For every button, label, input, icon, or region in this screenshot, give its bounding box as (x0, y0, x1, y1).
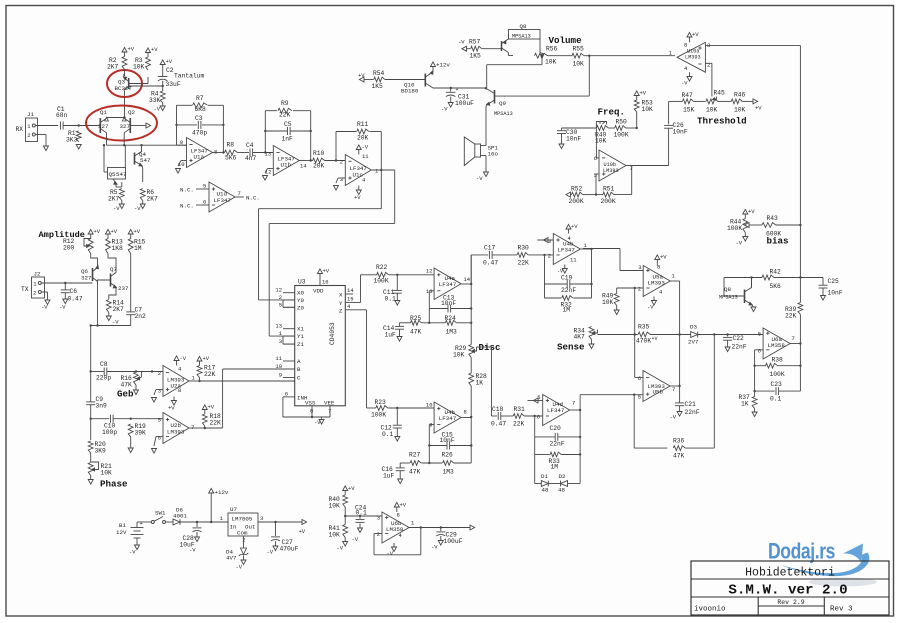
capacitor C22 (727, 335, 729, 337)
ground below R34 (591, 340, 593, 345)
title block frame (691, 561, 889, 615)
diode D3 (691, 332, 698, 338)
-V arrow above U2a (176, 361, 178, 366)
+V arrow above U5a (656, 260, 658, 266)
svg-text:5: 5 (158, 417, 161, 424)
svg-text:C2: C2 (166, 67, 174, 74)
wire Q4 emitter to R6 (142, 166, 143, 169)
resistor R31 (513, 414, 524, 419)
svg-text:22K: 22K (518, 260, 530, 267)
wire speaker to -V (481, 155, 487, 157)
wire R56 wiper to Q9 (541, 58, 543, 65)
op-amp U6b (382, 512, 409, 543)
svg-text:10K: 10K (101, 470, 113, 477)
transistor Q7 (110, 274, 112, 287)
svg-text:R9: R9 (281, 100, 289, 107)
svg-text:8: 8 (684, 42, 687, 49)
capacitor C7 (130, 254, 132, 312)
svg-text:+V: +V (128, 46, 135, 53)
svg-text:3K9: 3K9 (95, 448, 107, 455)
svg-text:2V7: 2V7 (688, 339, 699, 346)
svg-text:U1a: U1a (194, 154, 205, 161)
svg-text:1K: 1K (741, 401, 749, 408)
svg-text:Q8: Q8 (520, 23, 527, 30)
resistor R38 (755, 365, 766, 367)
-V arrow below R6 (142, 201, 144, 205)
svg-text:B: B (297, 366, 301, 373)
op-amp U1c (345, 155, 371, 186)
svg-text:C3: C3 (195, 115, 203, 122)
svg-text:6: 6 (203, 199, 206, 206)
svg-text:N.C.: N.C. (180, 187, 194, 194)
wire U10b pin6 (595, 128, 597, 158)
svg-text:Threshold: Threshold (697, 116, 747, 127)
U3 pin 9 C (283, 377, 295, 379)
svg-text:14: 14 (347, 287, 354, 294)
op-amp U10a comparator (677, 42, 705, 72)
resistor R46 (718, 100, 731, 102)
op-amp U4c (434, 402, 461, 433)
ground below J1 (44, 146, 49, 151)
svg-text:R22: R22 (376, 264, 388, 271)
svg-text:+V: +V (299, 528, 306, 535)
resistor R15 (128, 239, 133, 254)
svg-text:-V: -V (59, 304, 66, 311)
-V arrow below U5a (653, 297, 655, 301)
svg-text:2n2: 2n2 (135, 313, 147, 320)
potentiometer R21 (90, 453, 92, 462)
svg-text:10nF: 10nF (441, 300, 456, 307)
svg-text:C: C (297, 375, 301, 382)
svg-text:-V: -V (362, 144, 369, 151)
wire Z pin to R23 (366, 310, 368, 408)
transistor Q10 (424, 74, 426, 87)
wire U1a pin9 input (177, 144, 187, 146)
svg-text:8: 8 (310, 408, 313, 415)
-V below C31 (450, 97, 452, 103)
svg-text:R46: R46 (734, 92, 746, 99)
red annotation ellipse around Q1 Q2 (86, 106, 157, 141)
svg-text:10K: 10K (642, 106, 654, 113)
svg-text:16o: 16o (488, 151, 499, 158)
svg-text:7: 7 (792, 335, 795, 342)
svg-text:VSS: VSS (305, 400, 316, 407)
svg-text:547: 547 (140, 157, 151, 164)
op-amp U6a (763, 328, 790, 359)
wire Q1 collector down (106, 137, 108, 145)
svg-text:10nF: 10nF (566, 136, 581, 143)
wire R55 node to U10a and down to Q9 base (589, 55, 675, 57)
wire U4a output vertical bus (470, 255, 472, 345)
svg-text:327: 327 (81, 275, 92, 282)
svg-text:470uF: 470uF (280, 546, 299, 553)
svg-text:100p: 100p (102, 429, 117, 436)
+V arrow above R12 (90, 234, 92, 239)
resistor R14 (106, 300, 111, 313)
+V arrow above R53 (636, 96, 638, 101)
-V arrow below U3 (321, 417, 323, 420)
svg-text:-V: -V (314, 419, 321, 426)
resistor R39 (798, 303, 803, 315)
svg-text:14: 14 (300, 163, 307, 170)
svg-text:10: 10 (275, 363, 282, 370)
resistor R25 (400, 322, 411, 324)
svg-text:22K: 22K (513, 421, 525, 428)
resistor R9 feedback (264, 111, 266, 153)
wire U5b pin5 bus down to R36 (633, 395, 635, 448)
capacitor C31 (450, 88, 452, 92)
svg-text:6: 6 (638, 375, 641, 382)
svg-text:+V: +V (571, 223, 578, 230)
U3 pin 13 X1 (283, 328, 295, 330)
potentiometer R44 (743, 219, 748, 233)
svg-text:7: 7 (672, 386, 675, 393)
svg-text:0.1: 0.1 (770, 396, 782, 403)
svg-text:U1b: U1b (281, 162, 292, 169)
svg-text:100uF: 100uF (455, 100, 474, 107)
capacitor C1 (60, 122, 62, 130)
wire U4b output (580, 248, 591, 250)
svg-text:-V: -V (267, 549, 274, 556)
capacitor C6 (64, 283, 66, 290)
svg-text:-V: -V (129, 549, 136, 556)
svg-text:U7: U7 (230, 506, 237, 513)
op-amp U10b (599, 150, 626, 181)
svg-text:33K: 33K (149, 97, 161, 104)
-V arrow below U6b (393, 543, 395, 547)
svg-text:+V: +V (692, 31, 699, 38)
svg-text:10nF: 10nF (673, 129, 688, 136)
svg-text:Volume: Volume (549, 35, 583, 46)
wire U4c output (461, 417, 471, 419)
svg-text:-V: -V (236, 564, 243, 571)
svg-text:8: 8 (214, 149, 217, 156)
wire U6b output (409, 527, 470, 529)
+V arrow above U3 (319, 274, 321, 279)
svg-text:Z0: Z0 (297, 304, 304, 311)
op-amp U2a (163, 366, 189, 397)
capacitor C10 (91, 418, 110, 420)
svg-text:Y0: Y0 (297, 297, 304, 304)
+V output arrow (302, 520, 307, 525)
-V arrow below R14 (108, 313, 110, 317)
svg-text:X: X (339, 292, 343, 299)
wire R29 wiper to C18 (477, 346, 492, 348)
svg-text:0.1: 0.1 (385, 296, 397, 303)
svg-text:33uF: 33uF (166, 81, 181, 88)
svg-text:22K: 22K (210, 420, 222, 427)
resistor R26 (443, 461, 454, 466)
svg-text:Hobidetektori: Hobidetektori (745, 567, 835, 580)
diodes D1 D2 feedback (534, 455, 536, 484)
svg-text:LM393: LM393 (648, 280, 666, 287)
svg-text:6: 6 (537, 414, 540, 421)
ground below R37 (754, 409, 756, 413)
wire Y pin to R22 (360, 275, 362, 303)
transistor Q2 (129, 118, 131, 133)
svg-text:9: 9 (279, 372, 282, 379)
svg-text:3: 3 (158, 388, 161, 395)
ground below R1 (76, 145, 81, 150)
svg-text:R50: R50 (616, 119, 628, 126)
svg-text:Q7: Q7 (110, 266, 117, 273)
svg-text:3: 3 (260, 515, 263, 522)
capacitor C25 (800, 277, 823, 279)
resistor R43 (744, 223, 749, 228)
-V arrow below R44 (744, 233, 746, 237)
svg-text:4V7: 4V7 (226, 555, 237, 562)
-V arrow below U10a (689, 72, 691, 76)
capacitor C27 (258, 521, 302, 523)
svg-text:1nF: 1nF (282, 136, 294, 143)
svg-text:-V: -V (736, 240, 743, 247)
svg-text:R55: R55 (573, 46, 585, 53)
svg-text:+: + (140, 520, 143, 527)
potentiometer R34 Sense (589, 327, 594, 340)
svg-text:R7: R7 (196, 95, 204, 102)
svg-text:Y1: Y1 (297, 333, 304, 340)
resistor R40b (343, 495, 348, 507)
capacitor C5 feedback (265, 130, 287, 132)
op-amp U4b upper (553, 234, 580, 265)
svg-text:-V: -V (189, 547, 196, 554)
svg-text:C19: C19 (561, 275, 573, 282)
svg-text:3K3: 3K3 (66, 137, 78, 144)
ground below R16 (135, 385, 137, 390)
svg-text:1uF: 1uF (385, 332, 397, 339)
svg-text:Sense: Sense (557, 342, 585, 353)
svg-text:R47: R47 (682, 92, 694, 99)
-V arrow below U4b (564, 265, 566, 269)
svg-text:Rev 2.9: Rev 2.9 (777, 599, 804, 606)
op-amp U5a (643, 266, 670, 297)
resistor R4 (160, 91, 165, 103)
svg-text:1uF: 1uF (383, 473, 395, 480)
+V arrow above U4b (568, 229, 570, 234)
wire Q5 emitter to R5 (116, 186, 122, 188)
svg-text:10K: 10K (602, 299, 614, 306)
potentiometer R12 (88, 239, 93, 254)
transistor Q6 (92, 268, 94, 281)
svg-text:C6: C6 (70, 288, 78, 295)
svg-text:12: 12 (275, 287, 282, 294)
+V arrow above U6b (396, 507, 398, 512)
svg-text:SW1: SW1 (155, 510, 166, 517)
svg-text:100K: 100K (371, 412, 386, 419)
capacitor C12 (396, 408, 398, 425)
wire U10a pin2 down to R45 (705, 62, 712, 64)
svg-text:47K: 47K (410, 329, 422, 336)
ground at U1c pin3 (338, 177, 345, 179)
svg-text:R57: R57 (469, 39, 481, 46)
svg-text:BD180: BD180 (401, 88, 419, 95)
wire U5b output (670, 385, 680, 387)
wire Q2 base output arrow (130, 125, 146, 127)
regulator U7 LM7805 (228, 513, 258, 536)
capacitor C23 (755, 390, 775, 392)
svg-text:100K: 100K (374, 278, 389, 285)
svg-text:+V: +V (323, 268, 330, 275)
wire J2 pin1 to Q6 base (41, 282, 92, 284)
svg-text:R45: R45 (714, 90, 726, 97)
svg-text:10nF: 10nF (828, 290, 843, 297)
connector J2 (32, 277, 45, 298)
ground below C30 (561, 134, 563, 145)
capacitor C15 feedback (429, 424, 434, 426)
resistor R13 (106, 239, 111, 254)
capacitor C2 tantalum (162, 68, 164, 76)
svg-text:7: 7 (191, 424, 194, 431)
svg-text:U3: U3 (298, 279, 306, 286)
capacitor C26 (668, 101, 670, 124)
capacitor C28 (196, 522, 198, 527)
+12v arrow (210, 493, 212, 522)
svg-text:470K: 470K (636, 338, 651, 345)
ground below Q8 (752, 305, 754, 308)
svg-text:0.47: 0.47 (483, 260, 498, 267)
svg-text:ivoonio: ivoonio (694, 606, 726, 614)
svg-text:1K8: 1K8 (112, 245, 124, 252)
U3 pin 1 Y1 (283, 335, 295, 337)
resistor R23 (376, 406, 388, 411)
U3 pin 10 B (283, 368, 295, 370)
svg-text:C5: C5 (284, 121, 292, 128)
svg-text:C8: C8 (100, 361, 108, 368)
svg-text:13: 13 (275, 323, 282, 330)
ground at U2b pin6 (156, 436, 163, 438)
potentiometer R56 (539, 39, 541, 53)
resistor R5 (119, 189, 124, 201)
-V below R41 (344, 538, 346, 542)
svg-text:+V: +V (354, 194, 361, 201)
+V arrow above R17 (199, 361, 201, 366)
resistor R6 (140, 189, 145, 201)
wire Q2 collector down (123, 137, 125, 145)
wire U6a output (790, 343, 800, 345)
U3 pin 12 X0 (283, 292, 295, 294)
svg-text:D1: D1 (541, 473, 548, 480)
svg-text:11: 11 (275, 355, 282, 362)
wire long vertical to C8 C9 (90, 326, 92, 372)
svg-text:7: 7 (572, 400, 575, 407)
svg-text:48: 48 (542, 487, 549, 494)
wire pin2 bus down to U5b pin6 (634, 288, 636, 378)
svg-text:220p: 220p (96, 375, 111, 382)
svg-text:327: 327 (120, 123, 131, 130)
svg-text:0.47: 0.47 (68, 296, 83, 303)
svg-text:8: 8 (397, 512, 400, 519)
resistor R36 (673, 446, 685, 451)
svg-text:0.1: 0.1 (356, 510, 368, 517)
svg-text:N.C.: N.C. (246, 195, 260, 202)
svg-text:22nF: 22nF (685, 409, 700, 416)
wire U6b feedback (374, 533, 382, 535)
svg-text:2K7: 2K7 (108, 196, 120, 203)
capacitor C18 (497, 412, 499, 420)
svg-text:Geb: Geb (117, 389, 134, 400)
wire U4d output up to U5b pin5 (579, 395, 581, 410)
svg-text:Amplitude: Amplitude (39, 230, 85, 240)
svg-text:22K: 22K (204, 371, 216, 378)
op-amp U1b (273, 146, 299, 176)
wire Q3 node to C2 R4 (129, 85, 163, 87)
IC U3 CD4053 (295, 286, 346, 406)
wire U10b pin5 (596, 173, 599, 175)
svg-text:470p: 470p (192, 130, 207, 137)
resistor R30 (517, 253, 528, 258)
svg-text:-V: -V (476, 175, 483, 182)
svg-text:+: + (456, 87, 459, 93)
svg-text:LM358: LM358 (768, 342, 786, 349)
resistor R50 (608, 127, 614, 129)
transistor Q1 (99, 118, 101, 133)
capacitor C30 (562, 127, 597, 129)
svg-text:LM393: LM393 (167, 429, 185, 436)
svg-text:100K: 100K (614, 132, 629, 139)
svg-text:C20: C20 (550, 425, 562, 432)
U3 pin Y0 Z0 bracket (282, 300, 284, 307)
svg-text:20K: 20K (357, 135, 369, 142)
svg-text:S.M.W. ver 2.0: S.M.W. ver 2.0 (728, 583, 847, 599)
svg-text:4K7: 4K7 (574, 334, 586, 341)
svg-text:C25: C25 (828, 278, 840, 285)
svg-text:-V: -V (180, 355, 187, 362)
resistor R37 (752, 397, 757, 409)
svg-text:2: 2 (707, 62, 710, 69)
svg-text:-V: -V (431, 544, 438, 551)
svg-text:-V: -V (337, 545, 344, 552)
wire J2 pin2 to -V (41, 291, 47, 293)
svg-text:10K: 10K (329, 503, 341, 510)
wire Q3 collector down to Q1 Q2 (123, 90, 126, 91)
svg-text:+V: +V (755, 105, 762, 112)
+V arrow below U1c (358, 186, 360, 191)
svg-text:Y: Y (339, 300, 343, 307)
svg-text:39K: 39K (135, 430, 147, 437)
svg-text:+V: +V (348, 485, 355, 492)
svg-text:3: 3 (279, 338, 282, 345)
capacitor C21 (679, 386, 681, 403)
svg-text:14: 14 (464, 276, 471, 283)
svg-text:6: 6 (158, 435, 161, 442)
svg-text:Tantalum: Tantalum (174, 73, 204, 80)
resistor R22 (377, 272, 389, 277)
svg-text:N.C.: N.C. (180, 203, 194, 210)
potentiometer R45 (706, 99, 718, 104)
svg-text:MPSA13: MPSA13 (494, 111, 513, 117)
svg-text:VEE: VEE (324, 400, 335, 407)
svg-text:5K6: 5K6 (770, 283, 782, 290)
svg-text:C23: C23 (771, 381, 783, 388)
svg-text:LM7805: LM7805 (232, 516, 253, 523)
svg-text:R25: R25 (410, 315, 422, 322)
svg-text:J2: J2 (34, 271, 41, 278)
svg-text:D3: D3 (690, 324, 697, 331)
U3 pin 14 X (345, 293, 353, 295)
svg-text:1M: 1M (551, 464, 559, 471)
resistor R53 (634, 100, 639, 112)
speaker SP1 (475, 144, 481, 157)
svg-text:-V: -V (458, 39, 465, 46)
svg-text:-V: -V (647, 304, 654, 311)
U3 pin 2 Y0 (283, 299, 295, 301)
svg-text:Phase: Phase (100, 479, 128, 490)
svg-text:5K6: 5K6 (225, 155, 237, 162)
svg-text:5: 5 (758, 331, 761, 338)
svg-text:TX: TX (21, 286, 29, 293)
svg-text:Rev 3: Rev 3 (830, 606, 853, 614)
resistor R2 (122, 57, 127, 70)
